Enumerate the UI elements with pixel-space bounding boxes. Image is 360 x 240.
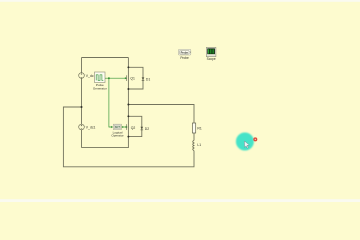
arrowhead logical operator input <box>111 126 113 128</box>
wire top bus <box>82 57 129 59</box>
junction gate signal branch <box>108 77 110 79</box>
svg-text:Q1: Q1 <box>130 76 135 80</box>
wire gate signal to Q2 <box>122 126 126 128</box>
junction upper loop bottom <box>127 88 129 90</box>
record indicator dot <box>253 137 257 141</box>
junction switch midpoint <box>127 104 129 106</box>
source V_dc1 <box>79 124 85 130</box>
diode D1 <box>142 77 145 80</box>
arrowhead gate Q1 <box>125 77 127 79</box>
svg-text:V_dc: V_dc <box>86 74 94 78</box>
arrowhead gate Q2 <box>126 126 128 128</box>
svg-text:D1: D1 <box>146 78 150 82</box>
wire bottom inner bus <box>82 147 129 149</box>
junction upper loop top <box>127 66 129 68</box>
svg-text:V_dc1: V_dc1 <box>86 126 96 130</box>
mouse cursor <box>244 141 249 148</box>
wire left branch lower <box>81 130 83 148</box>
svg-text:Q2: Q2 <box>131 126 136 130</box>
wire upper diode loop <box>128 67 143 89</box>
arrowhead logical operator output <box>122 126 124 128</box>
pulse generator block <box>95 72 106 83</box>
wire load branch upper <box>193 133 195 140</box>
wire left branch middle <box>81 79 83 125</box>
wire load top <box>128 105 194 124</box>
wire left branch upper <box>81 58 83 73</box>
svg-text:R1: R1 <box>197 127 201 131</box>
source V_dc <box>79 73 85 79</box>
wire right switch branch <box>127 58 129 149</box>
wire gate signal down to logical operator <box>109 78 111 127</box>
transistor Q2 <box>126 124 128 130</box>
probe block <box>178 49 190 55</box>
scope block <box>206 47 216 56</box>
inductor L1 <box>193 140 194 150</box>
junction source midpoint <box>81 106 83 108</box>
svg-text:D2: D2 <box>145 127 149 131</box>
svg-text:Probe: Probe <box>181 50 189 54</box>
wire midpoint tap to load return <box>63 107 194 167</box>
resistor R1 <box>192 123 195 133</box>
transistor Q1 <box>126 75 128 81</box>
svg-text:Probe: Probe <box>180 56 189 60</box>
wire gate signal to Q1 <box>105 77 125 79</box>
junction lower loop top <box>127 115 129 117</box>
logical operator block NOT <box>113 124 121 129</box>
svg-text:NOT: NOT <box>115 126 121 129</box>
svg-text:L1: L1 <box>197 143 201 147</box>
svg-text:Generator: Generator <box>93 87 107 91</box>
diode D2 <box>141 127 144 130</box>
svg-text:Operator: Operator <box>111 134 123 138</box>
wire lower diode loop <box>128 116 141 136</box>
junction lower loop bottom <box>127 136 129 138</box>
svg-text:Scope: Scope <box>207 57 216 61</box>
cursor highlight circle <box>236 133 254 151</box>
